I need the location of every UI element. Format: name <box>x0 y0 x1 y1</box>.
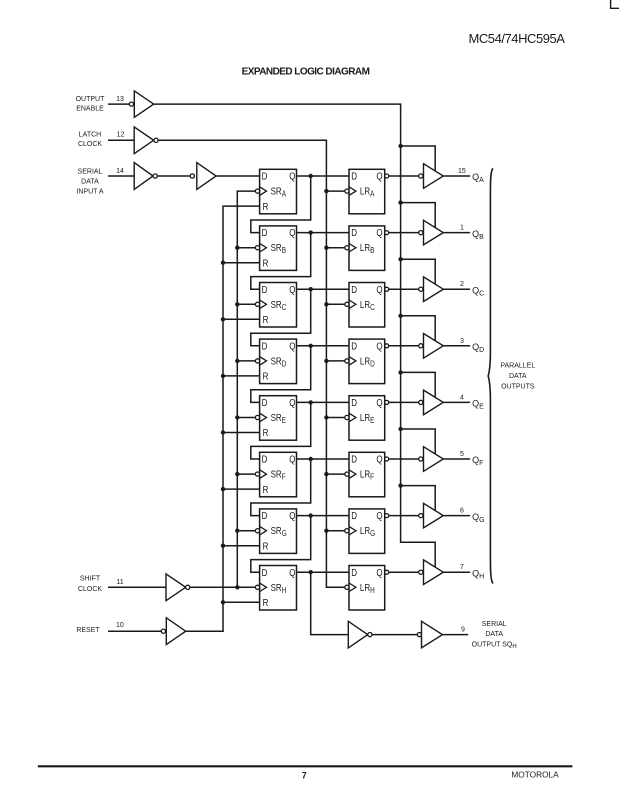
flip-flop SRC clock wedge <box>260 300 267 309</box>
wire: serial data between buffers <box>157 175 190 177</box>
svg-text:INPUT A: INPUT A <box>76 189 103 196</box>
svg-text:D: D <box>262 284 268 295</box>
flip-flop SRE clock wedge <box>260 413 267 422</box>
wire: reset tap to SRD R input <box>223 375 260 377</box>
svg-text:9: 9 <box>461 627 465 634</box>
inverter U-SD2 input bubble <box>190 174 194 178</box>
latch LRE output bubble <box>385 400 389 404</box>
wire: OUTPUT ENABLE input (pin 13) <box>108 103 129 105</box>
svg-text:D: D <box>262 510 268 521</box>
latch LRC clock wedge <box>349 300 356 309</box>
wire: reset tap to SRH R input <box>223 601 260 603</box>
wire: reset tap to SRC R input <box>223 318 260 320</box>
wire: LATCH CLOCK input (pin 12) <box>108 139 134 141</box>
junction: shift clock bus row E <box>235 415 239 419</box>
junction: latch clock bus row E <box>324 415 328 419</box>
junction: output enable bus row B <box>398 200 402 204</box>
wire: SRF Q to LRF D <box>297 458 350 460</box>
flip-flop SRF label Q <box>289 454 295 465</box>
flip-flop SRG label R <box>263 541 269 552</box>
junction: reset bus row H <box>221 600 225 604</box>
flip-flop SRG clock wedge <box>260 526 267 535</box>
tri-state buffer row H <box>424 560 444 585</box>
wire: latch clock tap to LRE clock input <box>326 417 344 419</box>
wire: SRE Q to SRF D (chain) <box>251 402 311 459</box>
tri-state buffer row H input bubble <box>419 570 423 574</box>
latch LRD clock bubble <box>345 359 349 363</box>
inverter U-LC (latch clock) <box>134 127 153 154</box>
latch LRE label <box>360 412 375 425</box>
wire: shift clock to SRH clock input <box>190 586 256 588</box>
svg-text:13: 13 <box>116 96 124 103</box>
flip-flop SRF label R <box>263 484 269 495</box>
latch LRC label Q <box>376 284 382 295</box>
latch LRF clock bubble <box>345 472 349 476</box>
flip-flop SRF clock wedge <box>260 470 267 479</box>
pin number 2 <box>460 281 464 288</box>
tri-state buffer row A input bubble <box>419 174 423 178</box>
latch LRA clock wedge <box>349 187 356 196</box>
latch LRE clock bubble <box>345 415 349 419</box>
flip-flop SRH label Q <box>289 567 295 578</box>
output label QA <box>472 172 484 184</box>
pin number 13 <box>116 96 124 103</box>
svg-text:R: R <box>263 427 269 438</box>
pin number 10 <box>116 622 124 629</box>
junction: reset bus row D <box>221 374 225 378</box>
wire: LRH Q to output buffer <box>389 571 419 573</box>
svg-text:SHIFT: SHIFT <box>80 576 101 583</box>
net label RESET <box>76 627 100 634</box>
wire: LRC Q to output buffer <box>389 288 419 290</box>
flip-flop SRG clock bubble <box>255 529 259 533</box>
wire: SRF Q to SRG D (chain) <box>251 459 311 516</box>
flip-flop SRE label R <box>263 427 269 438</box>
flip-flop SRH label <box>271 582 287 595</box>
pin number 1 <box>460 225 464 232</box>
latch LRB box <box>349 226 385 271</box>
svg-text:R: R <box>263 597 269 608</box>
wire: output QG (pin 6) <box>443 515 470 517</box>
buffer U-OE (output enable) <box>134 91 153 117</box>
svg-text:D: D <box>351 227 357 238</box>
svg-text:Q: Q <box>376 284 382 295</box>
svg-text:R: R <box>263 371 269 382</box>
pin number 12 <box>117 132 125 139</box>
tri-state buffer row C input bubble <box>419 287 423 291</box>
svg-text:Q: Q <box>376 227 382 238</box>
inverter U-SC output bubble <box>186 585 190 589</box>
junction: reset bus row G <box>221 544 225 548</box>
tri-state buffer row E input bubble <box>419 400 423 404</box>
svg-text:LATCH: LATCH <box>79 131 101 138</box>
inverter U-SO2 (serial output stage 2) <box>422 621 443 648</box>
output label QC <box>472 285 484 297</box>
latch LRG box <box>349 509 385 554</box>
junction: shift clock bus row F <box>235 472 239 476</box>
svg-text:OUTPUTS: OUTPUTS <box>501 383 535 390</box>
wire: reset tap to SRE R input <box>223 432 260 434</box>
flip-flop SRB clock bubble <box>255 246 259 250</box>
flip-flop SRD label R <box>263 371 269 382</box>
flip-flop SRD label <box>271 356 287 369</box>
junction: SRF Q node <box>309 457 313 461</box>
latch LRD label Q <box>376 341 382 352</box>
svg-text:R: R <box>263 314 269 325</box>
flip-flop SRH label D <box>262 567 268 578</box>
brace: parallel data outputs <box>488 168 493 583</box>
latch LRF output bubble <box>385 457 389 461</box>
latch LRH label Q <box>376 567 382 578</box>
svg-text:R: R <box>263 484 269 495</box>
junction: output enable bus row E <box>398 370 402 374</box>
svg-text:DATA: DATA <box>509 373 527 380</box>
wire: shift clock tap to SRC clock input <box>237 303 255 305</box>
svg-text:Q: Q <box>289 454 295 465</box>
junction: output enable bus row G <box>398 483 402 487</box>
junction: latch clock bus row F <box>324 472 328 476</box>
svg-text:CLOCK: CLOCK <box>78 141 102 148</box>
svg-text:7: 7 <box>460 564 464 571</box>
tri-state buffer row F input bubble <box>419 457 423 461</box>
svg-text:7: 7 <box>302 770 307 780</box>
flip-flop SRB label D <box>262 227 268 238</box>
svg-text:Q: Q <box>289 510 295 521</box>
latch LRD clock wedge <box>349 357 356 366</box>
svg-text:11: 11 <box>116 579 123 586</box>
svg-text:4: 4 <box>460 394 464 401</box>
svg-text:CLOCK: CLOCK <box>78 586 102 593</box>
flip-flop SRG label <box>271 525 287 538</box>
flip-flop SRG label Q <box>289 510 295 521</box>
flip-flop SRA clock bubble <box>255 189 259 193</box>
flip-flop SRE label D <box>262 397 268 408</box>
junction: SRG Q node <box>309 513 313 517</box>
wire: reset net to reset bus <box>186 630 224 632</box>
wire: output enable tap to buffer row C <box>401 259 436 284</box>
svg-text:14: 14 <box>116 168 124 175</box>
wire: shift clock bus (vertical) with elbow to SRA clock <box>237 191 255 587</box>
latch LRA clock bubble <box>345 189 349 193</box>
wire: shift clock tap to SRB clock input <box>237 247 255 249</box>
wire: output QH (pin 7) <box>443 571 470 573</box>
svg-text:Q: Q <box>289 341 295 352</box>
flip-flop SRA label Q <box>289 171 295 182</box>
wire: SRC Q to LRC D <box>297 288 350 290</box>
wire: SRD Q to SRE D (chain) <box>251 346 311 403</box>
wire: SRC Q to SRD D (chain) <box>251 289 311 346</box>
svg-text:2: 2 <box>460 281 464 288</box>
pin number 6 <box>460 508 464 515</box>
svg-text:ENABLE: ENABLE <box>76 106 104 113</box>
wire: shift clock tap to SRF clock input <box>237 473 255 475</box>
wire: RESET input (pin 10) <box>108 630 161 632</box>
flip-flop SRE clock bubble <box>255 415 259 419</box>
latch LRA label D <box>351 171 357 182</box>
tri-state buffer row G <box>424 503 444 528</box>
latch LRD output bubble <box>385 344 389 348</box>
output label QH <box>472 568 484 580</box>
wire: SHIFT CLOCK input (pin 11) <box>108 586 166 588</box>
wire: LRE Q to output buffer <box>389 401 419 403</box>
wire: latch clock tap to LRD clock input <box>326 360 344 362</box>
junction: reset bus row B <box>221 261 225 265</box>
svg-text:Q: Q <box>289 397 295 408</box>
svg-text:D: D <box>351 171 357 182</box>
title EXPANDED LOGIC DIAGRAM <box>242 67 370 78</box>
svg-text:D: D <box>262 341 268 352</box>
svg-text:MC54/74HC595A: MC54/74HC595A <box>468 31 565 46</box>
flip-flop SRA label D <box>262 171 268 182</box>
svg-text:Q: Q <box>376 510 382 521</box>
wire: output enable tap to buffer row E <box>401 372 436 397</box>
latch LRB clock bubble <box>345 246 349 250</box>
svg-text:Q: Q <box>376 454 382 465</box>
pin number 4 <box>460 394 464 401</box>
pin number 15 <box>458 168 466 175</box>
flip-flop SRB label Q <box>289 227 295 238</box>
wire: SRD Q to LRD D <box>297 345 350 347</box>
wire: latch clock tap to LRF clock input <box>326 473 344 475</box>
wire: output QC (pin 2) <box>443 288 470 290</box>
wire: output QD (pin 3) <box>443 345 470 347</box>
junction: latch clock bus row G <box>324 529 328 533</box>
page number 7 <box>302 770 307 780</box>
flip-flop SRF clock bubble <box>255 472 259 476</box>
junction: latch clock bus row C <box>324 302 328 306</box>
svg-text:5: 5 <box>460 451 464 458</box>
wire: LRB Q to output buffer <box>389 232 419 234</box>
svg-text:OUTPUT: OUTPUT <box>76 96 106 103</box>
wire: shift clock tap to SRG clock input <box>237 530 255 532</box>
net label PARALLEL DATA OUTPUTS <box>500 362 535 390</box>
junction: shift clock bus at SRH <box>235 585 239 589</box>
wire: output enable bus (vertical) with elbow at row H tap <box>401 104 436 567</box>
latch LRH label <box>360 582 375 595</box>
wire: serial data output (pin 9) <box>443 634 469 636</box>
wire: output QA (pin 15) <box>443 175 470 177</box>
output label QG <box>472 512 484 524</box>
tri-state buffer row B input bubble <box>419 231 423 235</box>
latch LRC output bubble <box>385 287 389 291</box>
output label QD <box>472 342 484 354</box>
flip-flop SRA clock wedge <box>260 187 267 196</box>
wire: output QB (pin 1) <box>443 232 470 234</box>
wire: latch clock tap to LRA clock input <box>326 190 344 192</box>
svg-text:DATA: DATA <box>485 631 503 638</box>
junction: output enable bus row A <box>398 144 402 148</box>
latch LRB clock wedge <box>349 243 356 252</box>
latch LRB output bubble <box>385 231 389 235</box>
wire: output enable tap to buffer row A <box>401 146 436 171</box>
wire: SERIAL DATA input (pin 14) <box>108 175 134 177</box>
wire: output enable tap to buffer row D <box>401 316 436 341</box>
svg-text:Q: Q <box>376 567 382 578</box>
flip-flop SRH clock bubble <box>255 585 259 589</box>
inverter U-SC (shift clock) <box>166 574 186 601</box>
latch LRF label <box>360 469 375 482</box>
wire: output enable tap to buffer row F <box>401 429 436 454</box>
flip-flop SRG box <box>260 509 297 554</box>
wire: SRH Q down to serial output buffer <box>311 572 349 634</box>
svg-text:D: D <box>262 567 268 578</box>
flip-flop SRB box <box>260 226 297 271</box>
wire: SRG Q to SRH D (chain) <box>251 516 311 573</box>
svg-text:R: R <box>263 541 269 552</box>
inverter U-SD1 (serial data stage 1) <box>134 163 153 190</box>
junction: output enable bus row F <box>398 427 402 431</box>
flip-flop SRC label D <box>262 284 268 295</box>
latch LRG label <box>360 525 376 538</box>
junction: reset bus row F <box>221 487 225 491</box>
wire: SRE Q to LRE D <box>297 401 350 403</box>
wire: SRB Q to SRC D (chain) <box>251 233 311 290</box>
svg-text:10: 10 <box>116 622 124 629</box>
wire: LRG Q to output buffer <box>389 515 419 517</box>
latch LRG clock bubble <box>345 529 349 533</box>
flip-flop SRC label Q <box>289 284 295 295</box>
flip-flop SRF box <box>260 452 297 497</box>
latch LRH clock wedge <box>349 583 356 592</box>
flip-flop SRB label R <box>263 258 269 269</box>
latch LRD box <box>349 339 385 384</box>
flip-flop SRC label R <box>263 314 269 325</box>
wire: latch clock tap to LRG clock input <box>326 530 344 532</box>
flip-flop SRE box <box>260 396 297 441</box>
flip-flop SRF label D <box>262 454 268 465</box>
junction: shift clock bus row B <box>235 246 239 250</box>
svg-text:D: D <box>262 454 268 465</box>
svg-text:Q: Q <box>289 227 295 238</box>
latch LRH clock bubble <box>345 585 349 589</box>
pin number 5 <box>460 451 464 458</box>
svg-text:D: D <box>351 397 357 408</box>
flip-flop SRE label Q <box>289 397 295 408</box>
footer rule <box>38 765 573 767</box>
wire: LRD Q to output buffer <box>389 345 419 347</box>
tri-state buffer row D input bubble <box>419 344 423 348</box>
flip-flop SRE label <box>271 412 287 425</box>
svg-text:SERIAL: SERIAL <box>482 621 507 628</box>
junction: reset bus row E <box>221 430 225 434</box>
svg-text:D: D <box>351 341 357 352</box>
page header text MC54/74HC595A <box>468 31 565 46</box>
wire: OUTPUT ENABLE net to OE bus <box>154 103 402 105</box>
wire: latch clock bus (vertical) with elbow to LRH clock <box>326 140 344 587</box>
tri-state buffer row G input bubble <box>419 514 423 518</box>
inverter U-SO2 input bubble <box>417 633 421 637</box>
wire: output QE (pin 4) <box>443 401 470 403</box>
wire: SRB Q to LRB D <box>297 232 350 234</box>
flip-flop SRA label <box>271 186 287 199</box>
latch LRC clock bubble <box>345 302 349 306</box>
pin number 14 <box>116 168 124 175</box>
flip-flop SRA box <box>260 169 297 214</box>
latch LRE label D <box>351 397 357 408</box>
latch LRA output bubble <box>385 174 389 178</box>
tri-state buffer row B <box>424 220 444 245</box>
svg-text:6: 6 <box>460 508 464 515</box>
wire: reset tap to SRG R input <box>223 545 260 547</box>
svg-text:12: 12 <box>117 132 125 139</box>
svg-text:EXPANDED LOGIC DIAGRAM: EXPANDED LOGIC DIAGRAM <box>242 67 370 78</box>
svg-text:3: 3 <box>460 338 464 345</box>
inverter U-SO1 output bubble <box>368 633 372 637</box>
svg-text:D: D <box>351 454 357 465</box>
latch LRB label <box>360 242 375 255</box>
latch LRA label Q <box>376 171 382 182</box>
latch LRG label D <box>351 510 357 521</box>
wire: latch clock tap to LRC clock input <box>326 303 344 305</box>
tri-state buffer row D <box>424 334 444 359</box>
tri-state buffer row F <box>424 447 444 472</box>
inverter U-RS (reset) <box>166 618 185 645</box>
wire: reset tap to SRB R input <box>223 262 260 264</box>
latch LRB label D <box>351 227 357 238</box>
output label QF <box>472 455 483 467</box>
latch LRD label D <box>351 341 357 352</box>
svg-text:Q: Q <box>376 341 382 352</box>
svg-text:R: R <box>263 258 269 269</box>
latch LRD label <box>360 356 375 369</box>
flip-flop SRC clock bubble <box>255 302 259 306</box>
flip-flop SRD clock bubble <box>255 359 259 363</box>
wire: latch clock net to latch clock bus <box>158 139 327 141</box>
inverter U-RS input bubble <box>161 629 165 633</box>
page corner mark (top right) <box>611 0 619 8</box>
svg-text:DATA: DATA <box>81 178 99 185</box>
latch LRC box <box>349 283 385 328</box>
latch LRG output bubble <box>385 514 389 518</box>
flip-flop SRD label Q <box>289 341 295 352</box>
latch LRF box <box>349 452 385 497</box>
latch LRG label Q <box>376 510 382 521</box>
pin number 9 <box>461 627 465 634</box>
junction: SRE Q node <box>309 400 313 404</box>
flip-flop SRA label R <box>263 201 269 212</box>
latch LRH output bubble <box>385 570 389 574</box>
svg-text:MOTOROLA: MOTOROLA <box>511 769 559 779</box>
pin number 7 <box>460 564 464 571</box>
wire: SRG Q to LRG D <box>297 515 350 517</box>
flip-flop SRF label <box>271 469 287 482</box>
latch LRF label D <box>351 454 357 465</box>
svg-text:Q: Q <box>289 567 295 578</box>
wire: output enable tap to buffer row G <box>401 486 436 511</box>
latch LRE label Q <box>376 397 382 408</box>
junction: shift clock bus row C <box>235 302 239 306</box>
tri-state buffer row C <box>424 277 444 302</box>
flip-flop SRD label D <box>262 341 268 352</box>
svg-text:D: D <box>262 171 268 182</box>
junction: shift clock bus row G <box>235 529 239 533</box>
inverter U-SO1 (serial output stage 1) <box>348 621 367 648</box>
junction: SRA Q node <box>309 174 313 178</box>
latch LRH label D <box>351 567 357 578</box>
tri-state buffer row E <box>424 390 444 415</box>
latch LRC label <box>360 299 375 312</box>
svg-text:D: D <box>351 284 357 295</box>
junction: SRB Q node <box>309 230 313 234</box>
buffer U-OE input bubble <box>129 102 133 106</box>
flip-flop SRB label <box>271 242 287 255</box>
flip-flop SRC box <box>260 283 297 328</box>
wire: SRA Q to LRA D <box>297 175 350 177</box>
svg-text:PARALLEL: PARALLEL <box>500 362 535 369</box>
wire: shift clock tap to SRE clock input <box>237 417 255 419</box>
flip-flop SRG label D <box>262 510 268 521</box>
junction: latch clock bus row D <box>324 359 328 363</box>
